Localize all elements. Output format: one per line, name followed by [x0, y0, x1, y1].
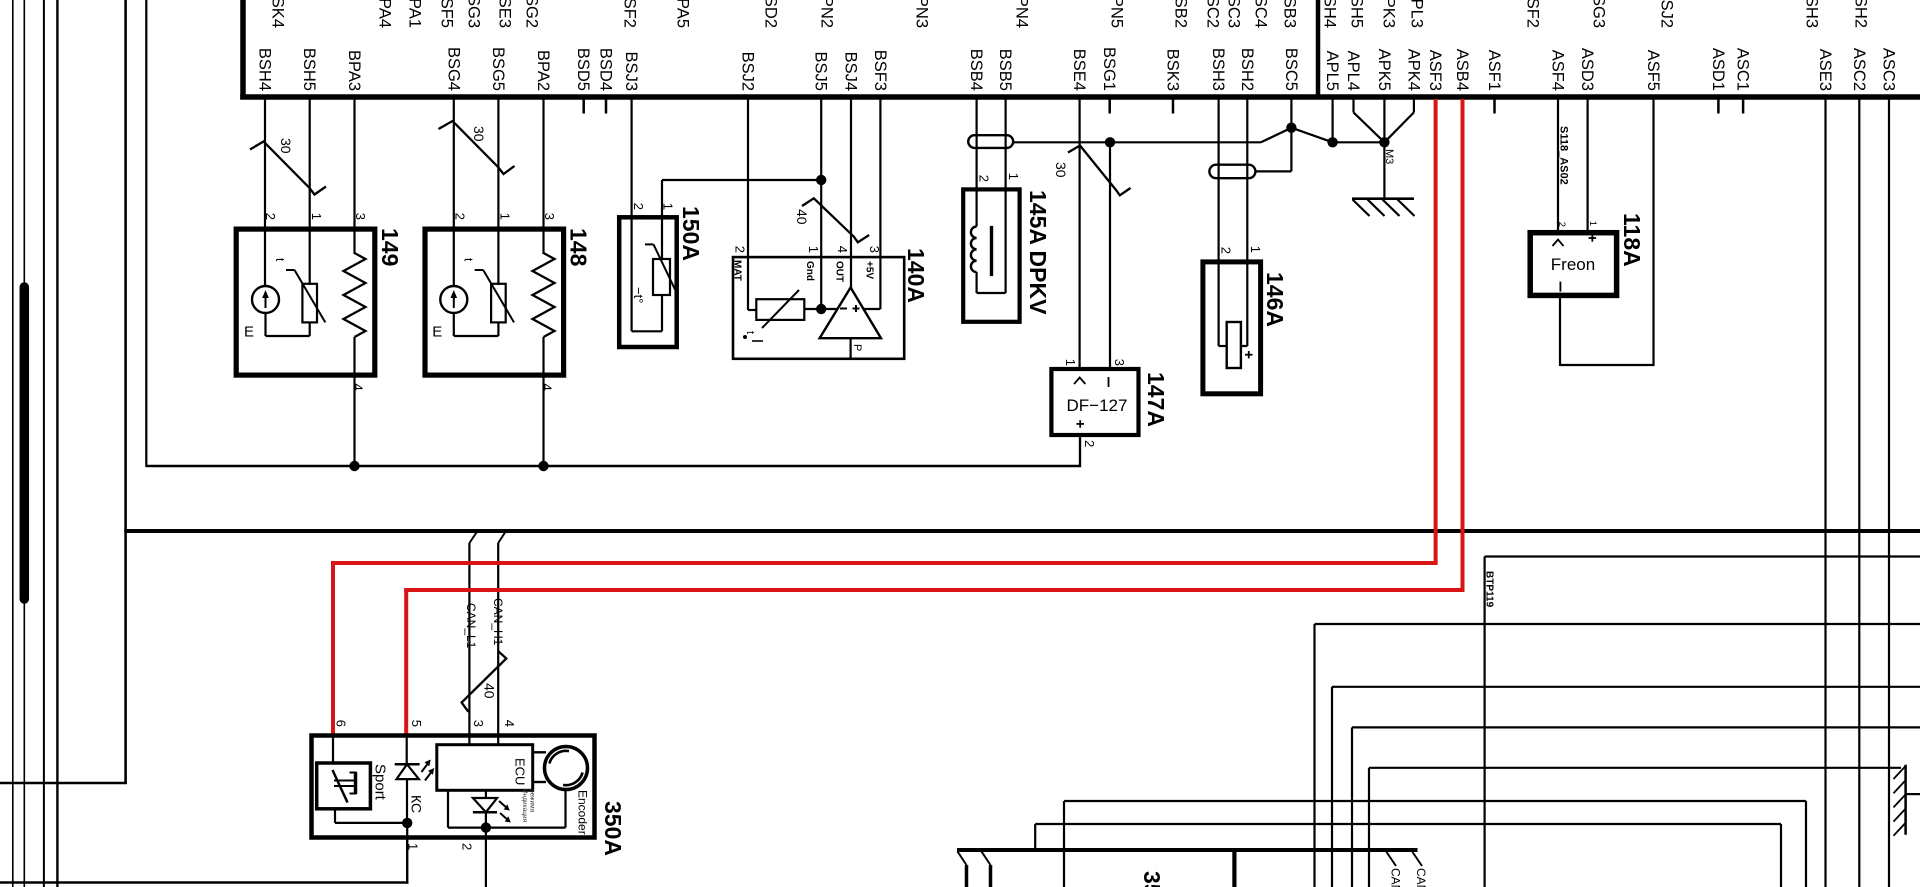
wire CAN_H1 [497, 543, 499, 736]
wire APK4 diagonal to APK5 node [1413, 99, 1415, 112]
svg-text:4: 4 [351, 384, 366, 391]
wire left rail 6 to sensor-ground bus [145, 0, 147, 467]
wire 118A pin3 down [1559, 297, 1561, 366]
svg-text:2: 2 [1556, 222, 1567, 227]
connector symbol 30 (BSE4/147A) [1068, 146, 1131, 196]
stub pin BSD5 [582, 99, 585, 114]
svg-text:ASE3: ASE3 [1816, 49, 1834, 91]
wire APK5 [1383, 99, 1385, 142]
svg-text:BSC3: BSC3 [1225, 0, 1243, 28]
svg-text:BSF3: BSF3 [871, 50, 889, 91]
svg-text:OUT: OUT [834, 261, 845, 282]
junction 350A pin2 node [481, 822, 491, 832]
junction APK5 node [1379, 137, 1389, 147]
red wire ASB4 to 350A pin5 [1461, 99, 1465, 592]
wire 350A pin2 down [485, 838, 487, 887]
svg-text:BTP119: BTP119 [1484, 571, 1495, 608]
wire CAN_L1 [468, 543, 470, 736]
junction APL5 node [1327, 137, 1337, 147]
svg-text:BSH2: BSH2 [1238, 48, 1256, 91]
stub pin BSG1 [1108, 99, 1111, 114]
svg-text:2: 2 [631, 203, 646, 210]
svg-text:APK3: APK3 [1380, 0, 1398, 28]
stub pin ASD1 [1717, 99, 1720, 114]
wire BSF3 to 140A pin3 [879, 99, 881, 257]
svg-text:1: 1 [309, 213, 324, 220]
wire APL5 node to APK5 node [1333, 141, 1385, 143]
svg-text:BPA4: BPA4 [376, 0, 394, 28]
svg-text:APL3: APL3 [1408, 0, 1426, 28]
svg-text:4: 4 [540, 384, 555, 391]
svg-text:BSB5: BSB5 [996, 49, 1014, 91]
svg-text:CAN_L1: CAN_L1 [1389, 868, 1403, 887]
svg-text:118A: 118A [1619, 213, 1645, 267]
wire BSH5 to 149 pin1 thermistor [309, 99, 311, 285]
svg-text:3: 3 [542, 213, 557, 220]
svg-text:ASC1: ASC1 [1734, 48, 1752, 91]
ground symbol M3 [1352, 197, 1414, 200]
wire BPA2 to 148 pin3 resistor [542, 99, 544, 254]
wire left rail 5 (down then left) [124, 0, 127, 784]
svg-text:BSB3: BSB3 [1281, 0, 1299, 28]
control unit 147A DF-127 [1051, 359, 1169, 466]
svg-text:1: 1 [1063, 359, 1078, 366]
svg-text:2: 2 [977, 175, 992, 182]
bottom connector divider [1232, 852, 1236, 887]
wire left rail 1 [12, 0, 14, 887]
svg-text:1: 1 [498, 213, 513, 220]
svg-text:BSH4: BSH4 [256, 48, 274, 91]
junction 148 pin4 / bus [538, 461, 548, 471]
connector symbol 40 (CAN) [462, 651, 507, 712]
svg-text:148: 148 [566, 228, 592, 267]
svg-text:ASC2: ASC2 [1850, 48, 1868, 91]
svg-text:BSG2: BSG2 [523, 0, 541, 28]
bottom CAN_L wire mark [1387, 852, 1397, 866]
crankshaft sensor 145A DPKV [963, 135, 1051, 322]
stub pin ASF1 [1493, 99, 1496, 114]
svg-text:CAN_H1: CAN_H1 [491, 598, 505, 646]
wire BSJ4 to 140A pin4 [850, 99, 852, 257]
wire ASF4 to 118A pin2 [1557, 99, 1559, 231]
wire riser 1 [1313, 624, 1315, 887]
connector symbol 30 (BSG4/BSG5) [439, 121, 515, 174]
svg-text:ASF4: ASF4 [1549, 50, 1567, 91]
svg-text:BPA2: BPA2 [534, 50, 552, 91]
svg-text:2: 2 [263, 213, 278, 220]
shield wire from 145A oval to BSC5 node [1013, 141, 1261, 143]
pressure sensor 118A Freon [1530, 213, 1645, 295]
svg-text:5: 5 [409, 720, 424, 727]
svg-text:351A: 351A [1139, 871, 1165, 887]
svg-text:M3: M3 [1383, 149, 1395, 164]
svg-text:APL5: APL5 [1323, 51, 1341, 91]
svg-text:BSG5: BSG5 [489, 47, 507, 91]
connector symbol 30 (BSH4/BSH5) [250, 142, 326, 195]
svg-text:BSH3: BSH3 [1209, 48, 1227, 91]
svg-text:BSD5: BSD5 [574, 48, 592, 91]
svg-text:BPA5: BPA5 [674, 0, 692, 28]
svg-text:40: 40 [794, 209, 810, 225]
svg-text:CAN_H1: CAN_H1 [1414, 868, 1428, 887]
wire BSG5 to 148 pin1 thermistor [497, 99, 499, 285]
svg-text:BSK3: BSK3 [1164, 49, 1182, 91]
svg-text:4: 4 [835, 246, 850, 253]
wire BPA3 to 149 pin3 resistor [353, 99, 355, 254]
svg-text:2: 2 [453, 213, 468, 220]
wire left rail 4 [56, 0, 58, 887]
svg-text:1: 1 [661, 203, 676, 210]
wire ASD3 to 118A pin1 [1586, 99, 1588, 231]
svg-text:t: t [744, 331, 756, 334]
wire 150A pin1 to BSJ5 node [661, 180, 663, 216]
wire APL5 [1331, 99, 1333, 142]
svg-text:ASH3: ASH3 [1803, 0, 1821, 28]
svg-text:4: 4 [502, 720, 517, 727]
svg-text:ASD1: ASD1 [1709, 48, 1727, 91]
svg-text:2: 2 [1219, 247, 1234, 254]
svg-text:APK5: APK5 [1375, 49, 1393, 91]
sensor 148 [425, 213, 592, 391]
svg-text:APK4: APK4 [1404, 49, 1422, 91]
svg-text:+5V: +5V [864, 261, 875, 279]
wire BSH3 to 146A pin2 [1217, 99, 1219, 260]
wire ASC2 [1858, 99, 1860, 887]
wire BSJ2 to 140A pin2 [747, 99, 749, 257]
svg-text:P: P [851, 344, 863, 351]
svg-text:BSE3: BSE3 [496, 0, 514, 28]
connector symbol 40 (BSJ5/BSF3) [802, 198, 869, 242]
wire BSC5 to node [1290, 99, 1292, 128]
wire 149 pin4 to bus [353, 377, 355, 466]
junction node on 147A pin3 wire [1105, 137, 1115, 147]
svg-text:150A: 150A [678, 206, 704, 261]
svg-text:BPN5: BPN5 [1108, 0, 1126, 28]
svg-text:1: 1 [1248, 246, 1263, 253]
svg-text:Freon: Freon [1551, 255, 1595, 274]
svg-text:Gnd: Gnd [804, 261, 815, 281]
svg-text:BPA3: BPA3 [345, 50, 363, 91]
wire node to ground M3 [1383, 142, 1385, 199]
svg-text:30: 30 [471, 126, 487, 142]
svg-text:BPN2: BPN2 [818, 0, 836, 28]
svg-text:E: E [244, 324, 254, 341]
wire BTP119 [1485, 555, 1920, 557]
junction 350A pin1 node [402, 818, 412, 828]
wire ASC3 [1888, 99, 1890, 887]
svg-text:ASF5: ASF5 [1644, 50, 1662, 91]
svg-text:147A: 147A [1143, 372, 1169, 427]
junction BSC5 node [1286, 123, 1296, 133]
wire riser 2 [1331, 687, 1333, 887]
wire BSE4 to 147A pin1 [1078, 99, 1080, 368]
svg-text:BSF2: BSF2 [621, 0, 639, 28]
svg-text:BSG4: BSG4 [444, 47, 462, 91]
wire BSB5 to 145A pin1 [1004, 99, 1006, 192]
sensor 149 [236, 213, 403, 391]
op-amp 140A [820, 288, 881, 339]
svg-text:E: E [432, 324, 442, 341]
wire BSG4 to 148 pin2 [453, 99, 455, 286]
svg-text:BSJ3: BSJ3 [622, 52, 640, 91]
svg-text:BSC2: BSC2 [1204, 0, 1222, 28]
svg-text:ASF3: ASF3 [1426, 50, 1444, 91]
svg-text:140A: 140A [903, 248, 929, 303]
svg-text:ASF2: ASF2 [1524, 0, 1542, 28]
wire BSH2 to 146A pin1 [1246, 99, 1248, 260]
ECU connector block bottom edge [240, 94, 1920, 100]
svg-text:145A DPKV: 145A DPKV [1025, 190, 1051, 315]
svg-text:−t°: −t° [631, 287, 646, 303]
sensor module 140A [732, 246, 930, 359]
stub pin BSD4 [605, 99, 608, 114]
ECU box [437, 745, 533, 791]
svg-text:ASD3: ASD3 [1578, 48, 1596, 91]
svg-text:BSD2: BSD2 [762, 0, 780, 28]
connector shield bar [1904, 765, 1907, 835]
svg-text:40: 40 [482, 683, 498, 699]
junction 140A Gnd [816, 304, 826, 314]
wire APL4 diagonal to APK5 node [1352, 99, 1354, 112]
svg-text:Sport: Sport [372, 764, 389, 801]
wire riser 4 to shield bar [1368, 768, 1370, 887]
svg-text:BSF5: BSF5 [438, 0, 456, 28]
svg-text:CAN_L1: CAN_L1 [464, 603, 478, 649]
wire lower L A [1034, 824, 1036, 851]
junction BSJ5/150A [816, 175, 826, 185]
svg-text:Индикация: Индикация [521, 789, 528, 823]
svg-text:3: 3 [353, 213, 368, 220]
svg-text:BSH5: BSH5 [300, 48, 318, 91]
svg-text:BSK4: BSK4 [269, 0, 287, 28]
wire left rail 3 [43, 0, 45, 887]
svg-text:2: 2 [1082, 440, 1097, 447]
svg-text:6: 6 [334, 720, 349, 727]
svg-text:MAT: MAT [732, 260, 743, 281]
svg-text:1: 1 [1587, 221, 1598, 226]
svg-text:149: 149 [377, 228, 403, 266]
svg-text:ASG3: ASG3 [1590, 0, 1608, 28]
svg-text:BSG3: BSG3 [465, 0, 483, 28]
svg-text:BSC5: BSC5 [1282, 48, 1300, 91]
svg-text:ASJ2: ASJ2 [1658, 0, 1676, 28]
svg-text:BSC4: BSC4 [1252, 0, 1270, 28]
svg-text:BPA1: BPA1 [406, 0, 424, 28]
wire lower L B [1063, 801, 1065, 887]
svg-text:1: 1 [1006, 173, 1021, 180]
wire riser 3 [1351, 727, 1353, 887]
bold harness bar [20, 287, 30, 599]
control panel 350A [312, 720, 627, 856]
sensor 150A [619, 203, 704, 347]
wire BSB4 to 145A pin2 [975, 99, 977, 192]
svg-text:S118_AS02: S118_AS02 [1558, 126, 1570, 185]
junction 149 pin4 / bus [349, 461, 359, 471]
wire BSC5 node to shield oval 2 [1290, 128, 1292, 172]
encoder [545, 747, 588, 790]
shield oval [968, 135, 1013, 148]
svg-text:Encoder: Encoder [576, 790, 590, 835]
bottom connector box top edge [957, 848, 1418, 852]
wire BSC5 node to APL5 node [1291, 128, 1332, 143]
shield oval [1209, 165, 1255, 179]
svg-text:BSD4: BSD4 [597, 48, 615, 91]
wire BSJ5 to 140A pin1 [820, 99, 822, 257]
wire 148 pin4 to bus [542, 377, 544, 466]
ECU connector block left edge [240, 0, 246, 99]
stub pin ASC1 [1742, 99, 1745, 114]
wire node to 147A pin3 [1109, 142, 1111, 368]
red wire ASF3 to 350A pin6 [1434, 99, 1438, 565]
svg-text:ASF1: ASF1 [1485, 50, 1503, 91]
svg-text:BPN4: BPN4 [1013, 0, 1031, 28]
svg-text:3: 3 [867, 246, 882, 253]
wire left rail 2 [23, 0, 25, 887]
wire 350A pin1 to left [406, 838, 408, 884]
svg-text:ASH2: ASH2 [1852, 0, 1870, 28]
svg-text:2: 2 [733, 246, 748, 253]
LED indicator [485, 790, 487, 798]
svg-text:ASH5: ASH5 [1348, 0, 1366, 28]
svg-text:КС: КС [409, 795, 425, 813]
display symbol box [317, 763, 371, 809]
svg-text:BSJ5: BSJ5 [812, 52, 830, 91]
svg-text:3: 3 [1112, 359, 1127, 366]
svg-text:BPN3: BPN3 [913, 0, 931, 28]
ECU connector divider [1316, 0, 1321, 95]
svg-text:ASC3: ASC3 [1880, 48, 1898, 91]
sensor ground bus [146, 465, 1081, 467]
svg-text:2: 2 [460, 843, 475, 850]
svg-text:BSB2: BSB2 [1172, 0, 1190, 28]
svg-text:BSE4: BSE4 [1070, 49, 1088, 91]
svg-text:BSJ2: BSJ2 [739, 52, 757, 91]
stub pin BSK3 [1172, 99, 1175, 114]
svg-text:1: 1 [806, 246, 821, 253]
svg-text:30: 30 [1053, 162, 1069, 178]
svg-text:3: 3 [471, 720, 486, 727]
wire BSJ3 to 150A pin2 [630, 99, 632, 216]
bottom CAN_H wire mark [1413, 852, 1423, 866]
svg-text:BSJ4: BSJ4 [842, 52, 860, 91]
wire ASF5 to 118A pin3 [1652, 99, 1654, 365]
wire BSH4 to 149 pin2 [264, 99, 266, 286]
svg-text:режима: режима [529, 789, 536, 813]
svg-text:ASH4: ASH4 [1321, 0, 1339, 28]
harness bus line (middle) [124, 529, 1920, 533]
heater 146A [1203, 165, 1288, 394]
svg-text:APL4: APL4 [1344, 51, 1362, 91]
bottom connector pin a [958, 852, 967, 866]
svg-text:30: 30 [278, 138, 294, 154]
bottom connector pin b [982, 852, 991, 866]
svg-text:ASB4: ASB4 [1453, 49, 1471, 91]
wire ASE3 [1824, 99, 1826, 887]
svg-text:146A: 146A [1262, 272, 1288, 327]
svg-text:350A: 350A [600, 801, 626, 856]
LED KC [406, 737, 408, 764]
svg-text:DF−127: DF−127 [1067, 396, 1128, 415]
svg-text:BSG1: BSG1 [1100, 47, 1118, 91]
svg-text:BSB4: BSB4 [967, 49, 985, 91]
wire 147A pin2 [1079, 437, 1081, 466]
svg-text:ECU: ECU [513, 758, 528, 785]
